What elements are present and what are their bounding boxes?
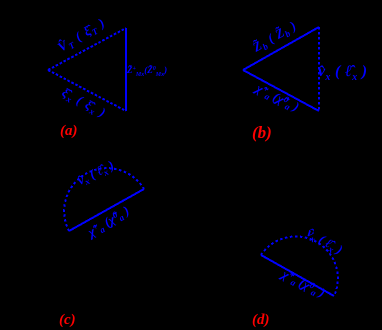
wire: (c) solid chord	[69, 189, 144, 231]
wire: (b) right dotted side	[318, 27, 320, 111]
svg-text:ξ̂x ( ξ̂x ): ξ̂x ( ξ̂x )	[59, 84, 109, 122]
svg-text:v̂x ( ℓ̂x ): v̂x ( ℓ̂x )	[318, 63, 367, 83]
label: (c) arc v-hat_x(l-hat_x)	[75, 157, 117, 189]
svg-text:(a): (a)	[60, 123, 78, 139]
label: (b) top side Z-tilde_b(Z-tilde_b)	[249, 18, 300, 57]
wire: (d) solid chord	[261, 255, 334, 296]
label: (b) bottom side chi-tilde+_a(chi-tilde0_a)	[251, 78, 302, 117]
svg-text:V̂T ( ξ̂T ): V̂T ( ξ̂T )	[55, 14, 109, 56]
label: (a) bottom side xi-hat_x(xi-hat_x)	[59, 84, 109, 122]
wire: (b) bottom solid side	[243, 70, 319, 111]
wire: (b) top solid side	[243, 27, 319, 70]
label: (a) top side V-hat_T(xi-hat_T)	[55, 14, 109, 56]
svg-text:χ̃+a (χ̃0a ): χ̃+a (χ̃0a )	[251, 78, 302, 117]
wire: (a) bottom dashed side	[48, 70, 126, 111]
svg-text:Z̃+Mx(Z̃0Mx): Z̃+Mx(Z̃0Mx)	[126, 65, 167, 78]
svg-text:v̂x ( ℓ̂x ): v̂x ( ℓ̂x )	[303, 225, 345, 259]
wire: (c) dashed arc	[64, 168, 144, 231]
svg-text:(b): (b)	[252, 123, 272, 142]
svg-text:Z̃b ( Z̃b ): Z̃b ( Z̃b )	[249, 18, 300, 57]
svg-text:v̂x ( ℓ̂x ): v̂x ( ℓ̂x )	[75, 157, 117, 189]
svg-text:χ̃+a (χ̃0a ): χ̃+a (χ̃0a )	[277, 264, 328, 303]
label: (d) chord chi-tilde+_a(chi-tilde0_a)	[277, 264, 328, 303]
label: (c) chord chi-tilde+_a(chi-tilde0_a)	[82, 202, 133, 241]
svg-text:(c): (c)	[59, 312, 76, 328]
label: (d) arc v-hat_x(l-hat_x)	[303, 225, 345, 259]
svg-text:(d): (d)	[252, 312, 270, 328]
wire: (a) right solid side	[125, 28, 127, 111]
wire: (a) top dashed side	[48, 28, 126, 70]
wire: (d) dashed arc	[261, 236, 338, 296]
